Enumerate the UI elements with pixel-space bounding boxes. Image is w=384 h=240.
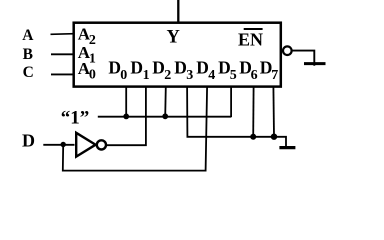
EN bubble (active-low circle) — [283, 46, 292, 55]
svg-text:D: D — [174, 58, 187, 78]
wire pin D1 from inverter output — [106, 87, 145, 146]
wire D to pin D4 (bottom route) — [63, 87, 207, 171]
junction dot D7-ground rail — [271, 134, 277, 140]
svg-text:D: D — [108, 58, 121, 78]
wire pin D6 — [252, 87, 254, 137]
svg-text:Y: Y — [167, 28, 181, 48]
wire pin D0 — [125, 87, 127, 117]
svg-text:3: 3 — [186, 68, 193, 83]
svg-text:1: 1 — [143, 68, 150, 83]
wire pin D2 — [164, 87, 167, 117]
ground symbol (D3/D6/D7 rail) — [279, 146, 295, 149]
wire input B — [51, 53, 74, 55]
svg-text:6: 6 — [251, 68, 258, 83]
svg-text:EN: EN — [238, 30, 263, 50]
svg-text:A: A — [22, 27, 34, 44]
ground symbol (EN) — [304, 62, 326, 65]
inverter G1 bubble — [97, 140, 106, 149]
svg-text:“1”: “1” — [61, 108, 90, 129]
svg-text:D: D — [130, 58, 143, 78]
svg-text:B: B — [23, 46, 33, 63]
wire Y output (top) — [177, 0, 179, 23]
svg-text:D: D — [196, 58, 209, 78]
svg-text:5: 5 — [230, 68, 237, 83]
wire EN to ground — [292, 51, 315, 66]
junction dot D input — [61, 142, 66, 147]
wire pin D5 to logic-1 rail — [230, 87, 232, 118]
svg-text:C: C — [23, 64, 34, 81]
svg-text:4: 4 — [208, 68, 215, 83]
mux/decoder box U1 — [74, 23, 281, 87]
wire D input — [43, 144, 74, 146]
svg-text:2: 2 — [164, 68, 171, 83]
junction dot D2-rail — [162, 113, 168, 119]
svg-text:7: 7 — [271, 68, 278, 83]
wire pin D3 to ground rail — [187, 87, 286, 148]
junction dot D0-rail — [123, 114, 129, 120]
svg-text:D: D — [22, 131, 35, 151]
wire input C — [51, 73, 74, 75]
EN overline — [244, 28, 263, 30]
svg-text:D: D — [152, 58, 165, 78]
svg-text:0: 0 — [120, 68, 127, 83]
wire input A — [51, 33, 75, 36]
wire pin D7 — [272, 87, 275, 137]
wire logic-1 rail — [98, 116, 231, 118]
svg-text:0: 0 — [89, 67, 96, 82]
inverter G1 triangle — [76, 133, 95, 157]
junction dot D6-ground rail — [250, 134, 256, 140]
